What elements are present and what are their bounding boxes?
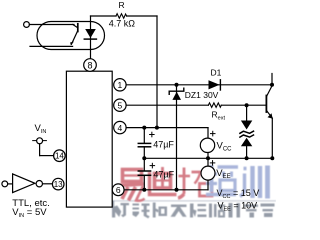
wire VCC branch xyxy=(207,128,209,139)
transistor Q1 xyxy=(266,74,272,159)
svg-text:4: 4 xyxy=(118,123,123,133)
node junction bottom cap xyxy=(142,188,146,192)
node junction mid suppressor xyxy=(245,156,249,160)
svg-text:13: 13 xyxy=(54,180,63,189)
pin 8 xyxy=(84,59,97,72)
node junction mid cap xyxy=(142,156,146,160)
wire pin5 line to base xyxy=(221,104,266,106)
node junction mid emitter xyxy=(270,156,274,160)
svg-text:5: 5 xyxy=(118,100,123,110)
pin 13 xyxy=(52,178,64,190)
node junction collector xyxy=(270,83,274,87)
diode D1 xyxy=(209,80,221,90)
source VCC xyxy=(200,131,215,158)
suppressor back-to-back zener xyxy=(240,105,254,158)
terminal input top-left xyxy=(24,22,30,28)
wire bottom-left lead xyxy=(30,45,73,47)
node junction zener top xyxy=(175,83,179,87)
terminal VIN xyxy=(33,138,54,156)
pin 4 xyxy=(114,121,126,133)
pin 14 xyxy=(54,150,66,162)
capacitor C2 47uF xyxy=(138,158,154,190)
svg-text:VIN = 5V: VIN = 5V xyxy=(12,207,47,219)
svg-text:14: 14 xyxy=(55,152,64,161)
svg-text:4.7 kΩ: 4.7 kΩ xyxy=(109,18,136,28)
capacitor C1 47uF xyxy=(138,128,154,159)
resistor Rext xyxy=(208,103,221,108)
svg-text:DZ1 30V: DZ1 30V xyxy=(185,90,219,100)
node junction suppressor top xyxy=(245,103,249,107)
inverter gate xyxy=(2,174,53,193)
pin 6 xyxy=(112,184,124,196)
svg-text:6: 6 xyxy=(116,185,121,195)
wire pin4 line xyxy=(126,127,208,129)
svg-text:D1: D1 xyxy=(211,68,222,78)
node junction R vertical xyxy=(155,126,159,130)
node junction bottom zener xyxy=(175,188,179,192)
optocoupler phototransistor xyxy=(70,24,78,45)
wire mid rail xyxy=(144,157,272,159)
svg-text:R: R xyxy=(119,0,125,10)
resistor R xyxy=(116,14,127,19)
zener DZ1 xyxy=(169,88,184,100)
node junction cap column xyxy=(142,126,146,130)
wire zener branch vertical xyxy=(176,85,178,190)
wire pin1 line xyxy=(126,84,272,86)
wire vertical from R down to pin4 line xyxy=(156,16,158,128)
svg-text:47µF: 47µF xyxy=(153,139,174,149)
svg-text:47µF: 47µF xyxy=(153,170,174,180)
wire LED vertical xyxy=(90,16,92,59)
svg-text:8: 8 xyxy=(87,60,92,70)
IC U1 xyxy=(66,71,112,207)
wire bottom rail xyxy=(124,189,208,191)
source VEE xyxy=(201,158,215,190)
svg-text:1: 1 xyxy=(118,80,123,90)
wire pin5 line xyxy=(126,104,208,106)
pin 1 xyxy=(114,79,126,91)
pin 5 xyxy=(114,99,126,111)
wire top xyxy=(91,15,117,17)
wire top-left lead xyxy=(29,24,74,26)
node junction mid source xyxy=(206,156,210,160)
optocoupler LED xyxy=(84,29,96,39)
wire top to right xyxy=(127,15,157,17)
optocoupler body xyxy=(37,22,105,50)
